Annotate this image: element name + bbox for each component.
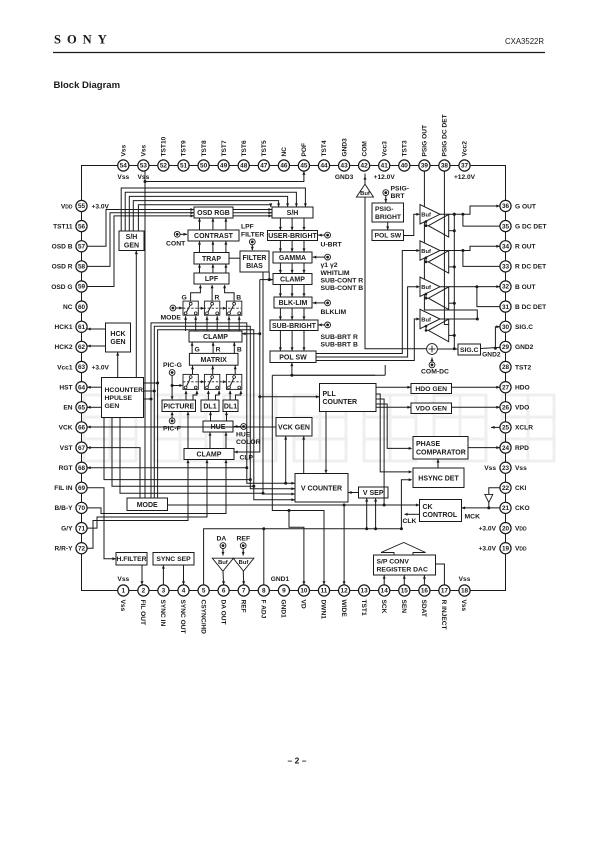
pin 12 WIDE (bottom) xyxy=(339,585,350,596)
pin 68 (left) xyxy=(76,462,87,473)
wire pin 71 G/Y to CLAMP xyxy=(87,460,207,529)
svg-text:G: G xyxy=(182,295,187,302)
wire pin 72 R/R-Y to CLAMP xyxy=(87,460,188,549)
svg-text:GEN: GEN xyxy=(124,242,139,249)
svg-text:VCK: VCK xyxy=(59,425,73,432)
wire pin chain top-right corner xyxy=(465,166,506,207)
svg-text:BRT: BRT xyxy=(391,193,406,200)
block VDO GEN xyxy=(411,403,452,414)
wire OSD pin 58 to OSD RGB xyxy=(87,213,194,267)
pin 16 SDAT (bottom) xyxy=(419,585,430,596)
pin 5 CSYNC/HD (bottom) xyxy=(198,585,209,596)
wire pin 22 CKI to inverter xyxy=(489,488,500,495)
svg-text:Vss: Vss xyxy=(141,144,148,156)
svg-text:16: 16 xyxy=(421,588,429,595)
wire pin chain left column xyxy=(81,206,83,548)
svg-text:34: 34 xyxy=(502,244,510,251)
svg-text:GEN: GEN xyxy=(110,339,125,346)
svg-text:SUB-BRT B: SUB-BRT B xyxy=(321,342,358,349)
svg-text:POL SW: POL SW xyxy=(374,233,401,240)
svg-text:Buf: Buf xyxy=(239,560,249,566)
wire FILTER BIAS to CLAMP xyxy=(268,272,270,280)
wire PLL COUNTER to PHASE COMPARATOR xyxy=(376,404,409,448)
pin 48 TST6 (top) xyxy=(238,160,249,171)
wire VDO GEN to pin 26 VDO xyxy=(452,406,500,408)
pin 43 GND3 (top) xyxy=(339,160,350,171)
block S/P CONV REGISTER DAC xyxy=(374,555,436,575)
svg-text:VDD: VDD xyxy=(515,546,527,553)
wire pin 16 to S/P CONV REGISTER DAC xyxy=(423,575,425,585)
svg-text:SUB-CONT B: SUB-CONT B xyxy=(321,285,364,292)
svg-text:36: 36 xyxy=(502,203,510,210)
wire pin chain top-left corner to left column xyxy=(82,166,124,207)
svg-text:TRAP: TRAP xyxy=(202,256,221,263)
svg-text:TST3: TST3 xyxy=(402,140,409,156)
svg-text:S/P CONV: S/P CONV xyxy=(377,558,410,565)
svg-text:PSIG DC DET: PSIG DC DET xyxy=(442,114,449,156)
block V SEP xyxy=(359,487,389,498)
svg-text:58: 58 xyxy=(78,264,86,271)
pin 67 (left) xyxy=(76,442,87,453)
wire pin chain right column xyxy=(505,206,507,548)
svg-text:CLAMP: CLAMP xyxy=(197,452,222,459)
wire S/H GEN to S/H bundle line 4 xyxy=(133,201,278,231)
svg-text:Vcc2: Vcc2 xyxy=(462,141,469,157)
pin 60 (left) xyxy=(76,301,87,312)
control HUE COLOR xyxy=(241,424,247,430)
svg-text:39: 39 xyxy=(421,163,429,170)
svg-text:+3.0V: +3.0V xyxy=(479,546,497,553)
svg-text:TST7: TST7 xyxy=(221,140,228,156)
svg-text:47: 47 xyxy=(260,163,268,170)
buffer COM Buf (pin 42) xyxy=(356,184,373,197)
svg-text:64: 64 xyxy=(78,384,86,391)
wire switch SW-G row1 to LPF xyxy=(191,285,201,301)
switch SW-G (row1) xyxy=(183,301,198,315)
svg-text:HCOUNTER: HCOUNTER xyxy=(105,387,144,394)
wire OSD RGB to S/H (3 lines) xyxy=(233,209,272,211)
svg-text:CONTROL: CONTROL xyxy=(423,512,458,519)
wire switch row2 up to MATRIX (3 arrows) xyxy=(192,366,194,375)
op-amp Buf PSIG output buffer xyxy=(420,309,440,328)
wire PLL COUNTER to HDO GEN xyxy=(376,386,411,388)
pin 34 (right) xyxy=(500,241,511,252)
pin 6 DA OUT (bottom) xyxy=(218,585,229,596)
svg-text:MCK: MCK xyxy=(465,514,481,521)
svg-text:DWN1: DWN1 xyxy=(320,600,327,620)
wire MODE dashed control line row1 xyxy=(183,307,241,309)
svg-text:REGISTER DAC: REGISTER DAC xyxy=(377,567,428,574)
svg-text:SIG.C: SIG.C xyxy=(515,324,533,331)
svg-text:RGT: RGT xyxy=(59,465,73,472)
svg-text:33: 33 xyxy=(502,264,510,271)
svg-text:FIL OUT: FIL OUT xyxy=(139,600,146,626)
svg-text:Vss: Vss xyxy=(119,600,126,612)
wire CLAMP up to HUE (2 arrows) xyxy=(209,432,211,449)
svg-text:38: 38 xyxy=(441,163,449,170)
pin 19 (right) xyxy=(500,543,511,554)
svg-text:LPF: LPF xyxy=(205,276,219,283)
svg-text:71: 71 xyxy=(78,525,86,532)
svg-text:G OUT: G OUT xyxy=(515,203,536,210)
wire VCK GEN to pin 66 VCK xyxy=(87,426,276,428)
svg-text:F ADJ: F ADJ xyxy=(260,600,267,619)
pin 66 (left) xyxy=(76,422,87,433)
svg-text:MODE: MODE xyxy=(161,315,182,322)
svg-text:BIAS: BIAS xyxy=(246,263,263,270)
block HSYNC DET xyxy=(413,468,464,488)
switch SW-B (row2) xyxy=(226,374,241,389)
svg-text:COM-DC: COM-DC xyxy=(421,369,449,376)
pin 4 SYNC OUT (bottom) xyxy=(178,585,189,596)
wire POL SW output to PSIG buffer xyxy=(316,319,417,361)
svg-text:35: 35 xyxy=(502,223,510,230)
wire HCOUNTER timing lines to counters xyxy=(104,418,250,480)
block V COUNTER xyxy=(295,474,348,503)
svg-text:Buf: Buf xyxy=(421,317,431,323)
svg-text:17: 17 xyxy=(441,588,449,595)
control PIC-G xyxy=(169,370,175,376)
svg-text:R/R-Y: R/R-Y xyxy=(55,546,74,553)
wire HDO GEN to pin 27 HDO xyxy=(452,386,500,388)
pin 64 (left) xyxy=(76,382,87,393)
svg-text:67: 67 xyxy=(78,445,86,452)
svg-text:Vcc3: Vcc3 xyxy=(381,141,388,157)
pin 15 SEN (bottom) xyxy=(399,585,410,596)
wire pin 68 RGT control line xyxy=(87,467,247,469)
svg-text:66: 66 xyxy=(78,425,86,432)
svg-text:OSD G: OSD G xyxy=(51,284,72,291)
svg-text:HDO GEN: HDO GEN xyxy=(415,386,447,393)
svg-text:59: 59 xyxy=(78,284,86,291)
wire second bias line to V COUNTER xyxy=(263,272,295,494)
svg-text:61: 61 xyxy=(78,324,86,331)
wire pin chain bottom-left corner xyxy=(82,548,124,590)
control PSIG-BRT xyxy=(383,190,389,196)
block PICTURE xyxy=(162,400,196,412)
svg-text:CLK: CLK xyxy=(403,518,417,525)
svg-text:R: R xyxy=(215,295,220,302)
pin 69 (left) xyxy=(76,482,87,493)
svg-text:CK: CK xyxy=(423,504,433,511)
svg-text:CLAMP: CLAMP xyxy=(280,277,305,284)
wire Vss line down to MODE xyxy=(144,182,146,499)
svg-text:57: 57 xyxy=(78,244,86,251)
svg-text:VDD: VDD xyxy=(61,203,73,210)
wire common feedback line (vertical) xyxy=(453,214,455,348)
svg-text:U-BRT: U-BRT xyxy=(321,242,343,249)
svg-text:Vss: Vss xyxy=(121,144,128,156)
svg-text:γ1 γ2: γ1 γ2 xyxy=(321,262,338,269)
wire HUE up to DL1 (2 arrows) xyxy=(210,412,212,422)
svg-text:WHITLIM: WHITLIM xyxy=(321,270,350,277)
pin 17 R INJECT (bottom) xyxy=(439,585,450,596)
wire CK CONTROL CLK output xyxy=(407,513,420,515)
wire V COUNTER to VCK GEN (2 arrows) xyxy=(285,436,287,483)
control LPF FILTER xyxy=(249,239,255,245)
svg-text:POL SW: POL SW xyxy=(279,354,307,361)
svg-text:WIDE: WIDE xyxy=(340,600,347,618)
svg-text:Buf: Buf xyxy=(421,213,431,219)
svg-text:LPF: LPF xyxy=(241,224,254,231)
svg-text:20: 20 xyxy=(502,525,510,532)
svg-text:VDO: VDO xyxy=(515,405,529,412)
block HCK GEN xyxy=(106,323,131,352)
wire S/H GEN to S/H bundle line 5 xyxy=(138,205,270,231)
wire pin 25 XCLR input stub xyxy=(491,426,500,428)
block DL1 (first) xyxy=(201,400,219,412)
svg-text:69: 69 xyxy=(78,485,86,492)
pin 71 (left) xyxy=(76,523,87,534)
wire pin 3 SYNC IN to SYNC SEP xyxy=(162,565,164,585)
svg-text:OSD R: OSD R xyxy=(52,264,73,271)
summing node (+) COM-DC xyxy=(427,344,438,355)
wire HSYNC DET to PHASE COMPARATOR xyxy=(437,459,439,468)
svg-text:R INJECT: R INJECT xyxy=(440,600,447,630)
block H.FILTER xyxy=(116,553,147,566)
wire pin chain top row xyxy=(123,165,464,167)
svg-text:CSYNC/HD: CSYNC/HD xyxy=(199,600,206,635)
header rule xyxy=(53,52,545,54)
wire SIG.C to pin 29 GND2 and pin 30 SIG.C xyxy=(481,347,500,348)
block MODE xyxy=(127,498,168,511)
pin 57 (left) xyxy=(76,241,87,252)
wire OSD pin 57 to OSD RGB xyxy=(87,210,194,247)
pin 7 REF (bottom) xyxy=(238,585,249,596)
pin 32 (right) xyxy=(500,281,511,292)
pin 45 POF (top) xyxy=(298,160,309,171)
wire MODE to pin 12 WIDE and CK CONTROL xyxy=(168,504,420,506)
pin 65 (left) xyxy=(76,402,87,413)
svg-text:GAMMA: GAMMA xyxy=(279,255,306,262)
svg-text:TST8: TST8 xyxy=(201,140,208,156)
wire S/H GEN to S/H bundle line 2 xyxy=(125,192,296,231)
svg-text:30: 30 xyxy=(502,324,510,331)
pin 33 (right) xyxy=(500,261,511,272)
control MODE xyxy=(170,305,176,311)
svg-text:B/B-Y: B/B-Y xyxy=(55,505,74,512)
wire HCOUNTER to S/H GEN xyxy=(135,251,137,378)
svg-text:72: 72 xyxy=(78,545,86,552)
control BLKLIM xyxy=(325,300,331,306)
buffer DA Buf to pin 6 DA OUT xyxy=(212,558,233,571)
wire POL SW feedback line xyxy=(292,374,375,376)
wire CLAMP to BLK-LIM (3 arrows) xyxy=(279,285,281,298)
svg-text:Vcc1: Vcc1 xyxy=(57,364,73,371)
pin 23 (right) xyxy=(500,462,511,473)
pin 13 TST1 (bottom) xyxy=(359,585,370,596)
block CLAMP (gamma chain) xyxy=(273,274,312,285)
wire HCOUNTER outputs to loop lines xyxy=(144,382,158,384)
svg-text:GND1: GND1 xyxy=(271,576,290,583)
wire HCK GEN to pin 62 HCK2 xyxy=(87,345,105,347)
svg-text:24: 24 xyxy=(502,445,510,452)
pin 39 PSIG OUT (top) xyxy=(419,160,430,171)
block POL SW (PSIG) xyxy=(372,230,404,241)
svg-text:V COUNTER: V COUNTER xyxy=(301,485,342,492)
svg-text:PSIG-: PSIG- xyxy=(391,186,410,193)
block CK CONTROL xyxy=(420,500,462,522)
block CLAMP (input) xyxy=(184,449,234,460)
wire TRAP to CONTRAST (3 arrows) xyxy=(199,241,201,253)
svg-text:18: 18 xyxy=(461,588,469,595)
svg-text:HSYNC DET: HSYNC DET xyxy=(418,475,459,482)
svg-text:PSIG OUT: PSIG OUT xyxy=(422,125,429,157)
svg-text:VST: VST xyxy=(60,445,73,452)
wire LPF to TRAP (3 arrows) xyxy=(199,264,201,273)
svg-text:MODE: MODE xyxy=(137,502,158,509)
svg-text:G DC DET: G DC DET xyxy=(515,223,547,230)
svg-text:31: 31 xyxy=(502,304,510,311)
svg-text:OSD RGB: OSD RGB xyxy=(197,210,230,217)
control CONT xyxy=(174,231,180,237)
op-amp feedback amp G xyxy=(428,214,448,237)
wire pin 17 R INJECT to S/P CONV REGISTER DAC xyxy=(436,564,445,585)
pin 58 (left) xyxy=(76,261,87,272)
wire DL1 up to switch row2 B xyxy=(229,391,231,400)
svg-text:HST: HST xyxy=(59,385,72,392)
svg-text:1: 1 xyxy=(122,588,126,595)
wire bias line down to PLL COUNTER xyxy=(260,280,320,397)
block MATRIX xyxy=(189,353,238,365)
svg-text:CXA3522R: CXA3522R xyxy=(505,37,544,46)
svg-text:DL1: DL1 xyxy=(224,403,237,410)
svg-text:7: 7 xyxy=(242,588,246,595)
svg-text:PLL: PLL xyxy=(323,391,337,398)
pin 56 (left) xyxy=(76,221,87,232)
control PIC-F xyxy=(169,418,175,424)
wire PLL COUNTER to VDO GEN xyxy=(376,406,411,408)
svg-text:R DC DET: R DC DET xyxy=(515,264,546,271)
op-amp Buf G output buffer xyxy=(420,205,440,224)
pin 14 SCK (bottom) xyxy=(379,585,390,596)
wire PLL COUNTER line to CK control line xyxy=(376,399,384,505)
svg-text:45: 45 xyxy=(300,163,308,170)
svg-text:54: 54 xyxy=(120,163,128,170)
svg-text:44: 44 xyxy=(320,163,328,170)
svg-text:TST5: TST5 xyxy=(261,140,268,156)
svg-text:+3.0V: +3.0V xyxy=(479,525,497,532)
svg-text:Vss: Vss xyxy=(117,576,129,583)
block LPF xyxy=(194,273,229,284)
block PSIG-BRIGHT xyxy=(372,203,404,222)
control DA xyxy=(220,543,226,549)
svg-text:Vss: Vss xyxy=(515,465,527,472)
svg-text:22: 22 xyxy=(502,485,510,492)
pin 2 FIL OUT (bottom) xyxy=(138,585,149,596)
svg-text:32: 32 xyxy=(502,284,510,291)
svg-text:SONY: SONY xyxy=(54,33,113,47)
wire G buffer to pin 36 G OUT and pin 35 G DC DET xyxy=(440,206,500,214)
control GAMMA gamma1 gamma2 xyxy=(325,254,331,260)
svg-text:R: R xyxy=(216,346,221,353)
pin 18 Vss (bottom) xyxy=(459,585,470,596)
wire PHASE COMPARATOR to pin 24 RPD xyxy=(468,447,500,449)
pin 25 (right) xyxy=(500,422,511,433)
svg-text:USER-BRIGHT: USER-BRIGHT xyxy=(268,233,317,240)
wire pin 14 to S/P CONV REGISTER DAC xyxy=(383,575,385,585)
svg-text:Vss: Vss xyxy=(484,465,496,472)
svg-text:COMPARATOR: COMPARATOR xyxy=(416,449,466,456)
switch SW-G (row2) xyxy=(183,374,198,389)
wire H.FILTER to pin 2 FIL OUT xyxy=(141,565,143,585)
svg-text:PSIG-: PSIG- xyxy=(375,206,394,213)
wire PIC-G dashed control line row2 xyxy=(183,381,241,383)
wire pin 21 CKO / MCK to CK CONTROL xyxy=(462,507,500,509)
svg-text:REF: REF xyxy=(237,536,251,543)
pin 1 Vss (bottom) xyxy=(118,585,129,596)
block PLL COUNTER xyxy=(320,384,377,412)
svg-text:SYNC IN: SYNC IN xyxy=(159,600,166,627)
svg-text:Buf: Buf xyxy=(421,285,431,291)
wire CONTRAST to OSD RGB (3 arrows) xyxy=(199,218,201,230)
svg-text:HPULSE: HPULSE xyxy=(105,395,133,402)
wire summing node to SIG.C xyxy=(437,348,458,350)
wire pin 69 FIL IN to H.FILTER xyxy=(87,488,116,559)
block DL1 (second) xyxy=(223,400,238,412)
svg-text:19: 19 xyxy=(502,545,510,552)
svg-text:42: 42 xyxy=(361,163,369,170)
pin 40 TST3 (top) xyxy=(399,160,410,171)
wire DL1 up to switch row2 R xyxy=(207,391,209,400)
pin 29 (right) xyxy=(500,341,511,352)
wire SYNC SEP to pin 4 SYNC OUT xyxy=(183,565,185,585)
svg-text:27: 27 xyxy=(502,384,510,391)
block USER-BRIGHT xyxy=(268,231,318,241)
svg-text:65: 65 xyxy=(78,405,86,412)
svg-text:BRIGHT: BRIGHT xyxy=(375,214,402,221)
pin 20 (right) xyxy=(500,523,511,534)
pin 10 VD (bottom) xyxy=(298,585,309,596)
svg-text:46: 46 xyxy=(280,163,288,170)
wire TRAP to FILTER BIAS xyxy=(229,257,240,259)
svg-text:R OUT: R OUT xyxy=(515,244,536,251)
svg-text:GEN: GEN xyxy=(105,403,120,410)
svg-text:FILTER: FILTER xyxy=(241,232,264,239)
svg-text:SUB-BRT R: SUB-BRT R xyxy=(321,334,358,341)
wire PLL COUNTER to V COUNTER xyxy=(325,412,327,474)
buffer REF Buf to pin 7 REF xyxy=(233,558,254,571)
pin 53 Vss (top) xyxy=(138,160,149,171)
svg-text:51: 51 xyxy=(180,163,188,170)
svg-text:VCK GEN: VCK GEN xyxy=(278,424,310,431)
svg-text:Vss: Vss xyxy=(459,576,471,583)
wire bias line down to CLAMP (input) CLP xyxy=(234,397,260,452)
svg-text:11: 11 xyxy=(321,588,328,595)
svg-text:13: 13 xyxy=(361,588,369,595)
svg-text:VDO GEN: VDO GEN xyxy=(416,406,447,413)
svg-text:H.FILTER: H.FILTER xyxy=(116,556,146,563)
svg-text:SIG.C: SIG.C xyxy=(460,347,479,354)
wire feedback loop amp PSIG xyxy=(426,326,428,330)
svg-text:Buf: Buf xyxy=(421,249,431,255)
svg-text:CKI: CKI xyxy=(515,485,527,492)
svg-text:G: G xyxy=(195,346,200,353)
svg-text:Block Diagram: Block Diagram xyxy=(54,80,121,91)
wire feedback loop amp R xyxy=(426,258,428,262)
svg-text:VD: VD xyxy=(300,600,307,609)
svg-text:+12.0V: +12.0V xyxy=(374,174,396,181)
wire PSIG-BRIGHT to POL SW xyxy=(387,222,389,230)
block HUE xyxy=(203,421,233,432)
svg-text:53: 53 xyxy=(140,163,148,170)
svg-text:SCK: SCK xyxy=(380,600,387,614)
svg-text:BLK-LIM: BLK-LIM xyxy=(279,300,308,307)
svg-text:48: 48 xyxy=(240,163,248,170)
block S/H xyxy=(272,207,313,218)
svg-text:49: 49 xyxy=(220,163,228,170)
wire USER-BRIGHT to GAMMA (3 arrows) xyxy=(279,241,281,253)
